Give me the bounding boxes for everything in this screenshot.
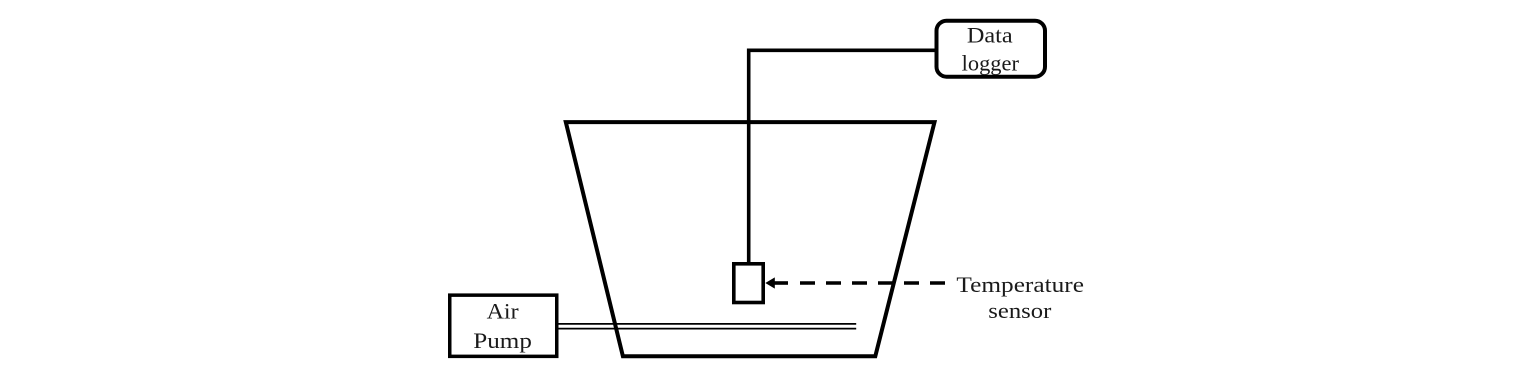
svg-text:Temperature: Temperature xyxy=(956,272,1084,297)
wire from data logger to temperature sensor xyxy=(749,50,935,263)
data logger box xyxy=(937,21,1046,77)
svg-text:Pump: Pump xyxy=(473,328,532,353)
air pump label xyxy=(473,298,532,352)
temperature sensor (small rectangle) xyxy=(734,264,763,303)
label: Temperature sensor xyxy=(956,272,1084,323)
svg-text:Data: Data xyxy=(967,22,1013,47)
svg-text:sensor: sensor xyxy=(988,298,1052,323)
svg-text:logger: logger xyxy=(962,50,1020,75)
dashed arrow pointing to sensor xyxy=(765,277,945,288)
air tube (double line) xyxy=(559,324,857,329)
air pump box xyxy=(450,295,557,356)
beaker (trapezoid container) xyxy=(566,122,935,356)
svg-text:Air: Air xyxy=(487,298,520,323)
data logger label xyxy=(962,22,1020,75)
